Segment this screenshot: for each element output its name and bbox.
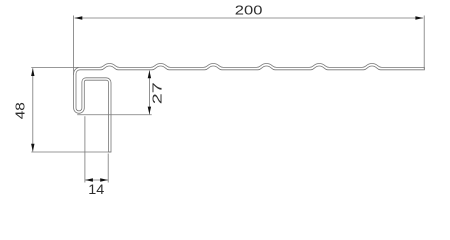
arrow left of 14 [85, 178, 93, 181]
dimension line 48 [32, 68, 34, 151]
extension line top (y=67.4) [31, 66, 78, 68]
wire: outer+inner surface single path [74, 64, 425, 153]
extension line left (x=73.6) [73, 16, 75, 76]
extension line bottom (y=152) [31, 151, 111, 153]
dimension 27 [77, 71, 152, 115]
arrow bottom of 27 [148, 107, 151, 115]
dimension line 14 [85, 179, 108, 181]
extension line right (x=424.2) [423, 16, 425, 70]
arrow top of 27 [148, 71, 151, 79]
dimension 14 [85, 116, 108, 182]
arrow right of 200 [415, 16, 423, 19]
arrow right of 14 [100, 178, 108, 181]
arrow bottom of 48 [31, 144, 34, 152]
extension line bottom (y=114.75) [77, 114, 152, 116]
extension line right (x=108.2) [107, 154, 109, 183]
svg-text:200: 200 [235, 4, 263, 18]
dimension line 200 [75, 17, 424, 19]
dimension 48 [31, 67, 111, 152]
dimension line 27 [148, 71, 150, 115]
arrow left of 200 [75, 16, 83, 19]
svg-text:48: 48 [14, 102, 28, 119]
profile outline (sheet metal cross-section) [74, 64, 425, 153]
svg-text:14: 14 [88, 182, 104, 197]
arrow top of 48 [31, 68, 34, 76]
extension line left (x=84.9) [84, 116, 86, 182]
dimension 200 [74, 16, 425, 76]
svg-text:27: 27 [150, 82, 164, 104]
